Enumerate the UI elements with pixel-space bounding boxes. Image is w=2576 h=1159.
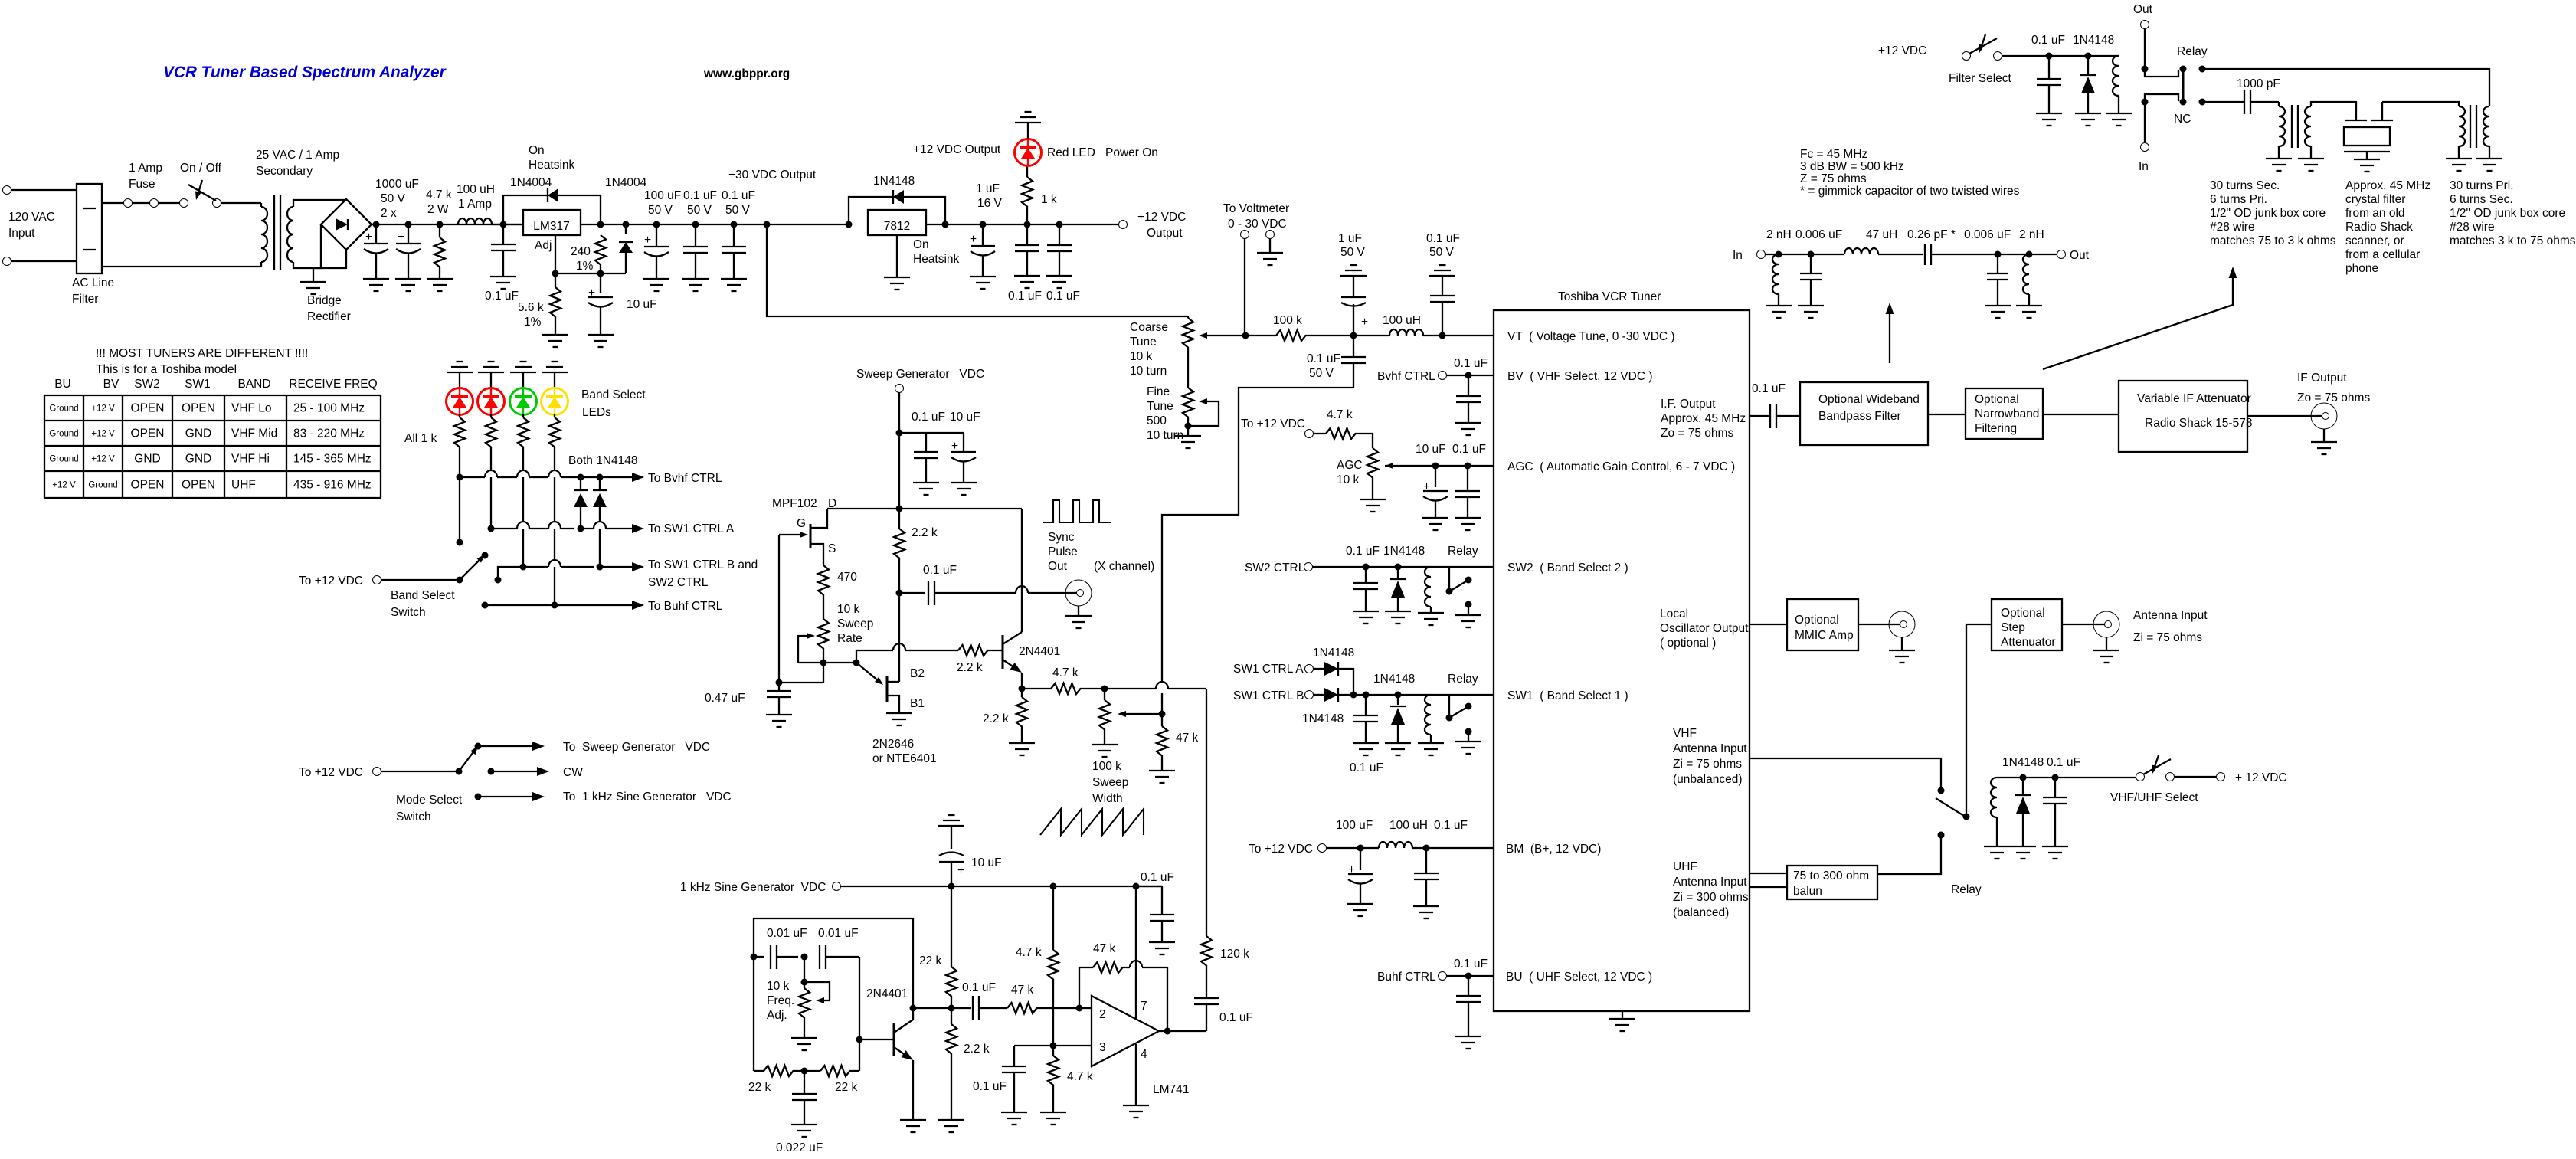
svg-text:50 V: 50 V	[1309, 367, 1334, 380]
svg-text:VHF Lo: VHF Lo	[231, 402, 272, 415]
svg-text:100 uH: 100 uH	[457, 183, 495, 196]
svg-text:Width: Width	[1092, 792, 1123, 805]
svg-text:UHF: UHF	[1673, 860, 1697, 873]
svg-text:0.01 uF: 0.01 uF	[767, 927, 807, 940]
svg-text:from a cellular: from a cellular	[2345, 248, 2420, 261]
svg-text:Buhf CTRL: Buhf CTRL	[1377, 971, 1436, 984]
svg-text:25 VAC / 1 Amp: 25 VAC / 1 Amp	[256, 149, 339, 162]
svg-text:NC: NC	[2174, 113, 2191, 126]
svg-text:VT ( Voltage Tune, 0 -30 VDC: VT ( Voltage Tune, 0 -30 VDC )	[1507, 330, 1675, 343]
svg-text:240: 240	[571, 245, 591, 258]
svg-text:Filter: Filter	[72, 293, 98, 306]
svg-text:4.7 k: 4.7 k	[1067, 1070, 1093, 1083]
svg-text:Rate: Rate	[837, 632, 862, 645]
svg-text:100 k: 100 k	[1092, 760, 1121, 773]
svg-text:470: 470	[837, 571, 857, 584]
svg-text:UHF: UHF	[231, 479, 256, 492]
svg-text:0.1 uF: 0.1 uF	[2047, 756, 2080, 769]
svg-text:Rectifier: Rectifier	[307, 310, 351, 323]
svg-text:Ground: Ground	[49, 455, 78, 464]
svg-text:1 uF: 1 uF	[1338, 232, 1362, 245]
svg-text:Radio Shack: Radio Shack	[2345, 221, 2413, 234]
svg-text:G: G	[797, 517, 806, 530]
svg-text:Bvhf CTRL: Bvhf CTRL	[1377, 370, 1435, 383]
svg-text:2.2 k: 2.2 k	[983, 712, 1009, 725]
svg-text:2.2 k: 2.2 k	[957, 661, 983, 674]
svg-text:Sync: Sync	[1048, 531, 1075, 544]
svg-text:BV: BV	[103, 378, 119, 391]
svg-text:To Bvhf CTRL: To Bvhf CTRL	[648, 472, 722, 485]
svg-text:0.1 uF: 0.1 uF	[1141, 871, 1174, 884]
svg-text:2N2646: 2N2646	[872, 738, 914, 751]
svg-text:0.1 uF: 0.1 uF	[1752, 382, 1786, 395]
svg-text:phone: phone	[2345, 262, 2378, 275]
svg-text:Freq.: Freq.	[767, 994, 794, 1007]
svg-text:#28 wire: #28 wire	[2210, 221, 2255, 234]
svg-text:GND: GND	[185, 427, 211, 440]
svg-text:50 V: 50 V	[687, 204, 712, 217]
svg-text:Switch: Switch	[396, 810, 431, 823]
svg-text:or NTE6401: or NTE6401	[872, 752, 937, 765]
svg-text:Relay: Relay	[1448, 673, 1478, 686]
svg-text:BM (B+, 12 VDC): BM (B+, 12 VDC)	[1506, 843, 1601, 856]
svg-text:10 k: 10 k	[1337, 473, 1360, 486]
svg-text:OPEN: OPEN	[182, 479, 215, 492]
svg-text:Zi = 75 ohms: Zi = 75 ohms	[2133, 631, 2202, 644]
svg-text:from an old: from an old	[2345, 207, 2405, 220]
svg-text:BU: BU	[54, 378, 71, 391]
svg-text:LM317: LM317	[533, 220, 569, 233]
svg-text:Radio Shack 15-578: Radio Shack 15-578	[2145, 417, 2252, 430]
svg-text:balun: balun	[1793, 885, 1822, 898]
svg-text:Zi = 75 ohms: Zi = 75 ohms	[1673, 758, 1742, 771]
svg-text:Attenuator: Attenuator	[2001, 636, 2056, 649]
svg-text:In: In	[1733, 249, 1743, 262]
svg-text:22 k: 22 k	[748, 1081, 771, 1094]
svg-text:Zo = 75 ohms: Zo = 75 ohms	[2297, 391, 2370, 404]
svg-text:SW1 ( Band Select 1 ): SW1 ( Band Select 1 )	[1507, 689, 1628, 702]
svg-text:To 1 kHz Sine Generator VDC: To 1 kHz Sine Generator VDC	[563, 791, 732, 804]
svg-text:MMIC Amp: MMIC Amp	[1795, 629, 1854, 642]
svg-text:0.1 uF: 0.1 uF	[962, 981, 996, 994]
svg-text:25 - 100 MHz: 25 - 100 MHz	[293, 402, 365, 415]
svg-text:BU ( UHF Select, 12 VDC ): BU ( UHF Select, 12 VDC )	[1506, 971, 1652, 984]
svg-text:500: 500	[1147, 414, 1167, 427]
svg-text:0 - 30 VDC: 0 - 30 VDC	[1228, 218, 1287, 231]
svg-text:10 turn: 10 turn	[1147, 429, 1183, 442]
svg-text:50 V: 50 V	[725, 204, 751, 217]
svg-text:This is for a Toshiba model: This is for a Toshiba model	[96, 363, 237, 376]
svg-text:GND: GND	[134, 453, 160, 466]
svg-text:120 VAC: 120 VAC	[8, 211, 55, 224]
svg-text:To Voltmeter: To Voltmeter	[1223, 202, 1289, 215]
svg-text:!!! MOST TUNERS ARE DIFFERENT: !!! MOST TUNERS ARE DIFFERENT !!!!	[96, 347, 308, 360]
svg-text:Optional: Optional	[1795, 614, 1839, 627]
svg-text:Optional Wideband: Optional Wideband	[1818, 393, 1920, 406]
svg-text:10 uF: 10 uF	[627, 298, 657, 311]
svg-text:+12 V: +12 V	[91, 404, 115, 414]
svg-text:1N4148: 1N4148	[1302, 712, 1344, 725]
svg-text:0.1 uF: 0.1 uF	[2031, 34, 2065, 47]
svg-text:Heatsink: Heatsink	[913, 253, 960, 266]
svg-text:+12 VDC: +12 VDC	[1137, 211, 1186, 224]
svg-text:10 k: 10 k	[1130, 350, 1153, 363]
svg-text:Oscillator Output: Oscillator Output	[1660, 622, 1749, 635]
svg-text:www.gbppr.org: www.gbppr.org	[703, 67, 790, 80]
svg-text:AC Line: AC Line	[72, 277, 114, 290]
svg-text:VHF/UHF Select: VHF/UHF Select	[2110, 791, 2198, 804]
svg-text:S: S	[828, 542, 836, 555]
svg-text:Approx. 45 MHz: Approx. 45 MHz	[1661, 412, 1746, 425]
svg-text:0.1 uF: 0.1 uF	[1307, 352, 1340, 365]
svg-text:Sweep: Sweep	[837, 617, 873, 630]
svg-text:+: +	[957, 864, 964, 877]
svg-text:Band Select: Band Select	[391, 589, 455, 602]
svg-text:0.26 pF *: 0.26 pF *	[1907, 228, 1956, 241]
svg-text:1N4148: 1N4148	[1373, 673, 1415, 686]
svg-text:+: +	[588, 286, 595, 300]
svg-text:Toshiba VCR Tuner: Toshiba VCR Tuner	[1558, 290, 1661, 303]
svg-text:Out: Out	[2070, 249, 2090, 262]
svg-text:10 uF: 10 uF	[950, 411, 980, 424]
svg-text:VHF: VHF	[1673, 727, 1697, 740]
svg-text:VHF Hi: VHF Hi	[231, 453, 270, 466]
svg-text:4.7 k: 4.7 k	[1327, 408, 1353, 421]
svg-text:Optional: Optional	[2001, 607, 2045, 620]
svg-text:On: On	[913, 238, 929, 251]
svg-text:0.1 uF: 0.1 uF	[1452, 443, 1486, 456]
svg-text:SW2: SW2	[134, 378, 160, 391]
svg-text:B1: B1	[910, 697, 925, 710]
svg-text:1 k: 1 k	[1041, 193, 1057, 206]
svg-text:1%: 1%	[576, 260, 594, 273]
svg-text:Pulse: Pulse	[1048, 545, 1078, 558]
svg-text:0.1 uF: 0.1 uF	[1346, 545, 1380, 558]
svg-text:10 uF: 10 uF	[971, 856, 1002, 869]
svg-text:+ 12 VDC: + 12 VDC	[2235, 771, 2287, 784]
svg-text:120 k: 120 k	[1220, 948, 1249, 961]
svg-text:Power On: Power On	[1105, 146, 1158, 159]
svg-text:1/2" OD junk box core: 1/2" OD junk box core	[2210, 207, 2326, 220]
svg-text:Bridge: Bridge	[307, 294, 342, 307]
svg-text:0.1 uF: 0.1 uF	[1046, 290, 1080, 303]
svg-text:47 k: 47 k	[1093, 942, 1116, 955]
svg-text:Coarse: Coarse	[1130, 321, 1168, 334]
svg-text:AGC ( Automatic Gain Control,: AGC ( Automatic Gain Control, 6 - 7 VDC …	[1507, 460, 1735, 473]
svg-text:CW: CW	[563, 766, 583, 779]
svg-text:OPEN: OPEN	[131, 479, 165, 492]
svg-text:Sweep: Sweep	[1092, 776, 1128, 789]
svg-text:4.7 k: 4.7 k	[1052, 666, 1079, 679]
svg-text:+12 V: +12 V	[91, 430, 115, 439]
svg-text:SW2 CTRL: SW2 CTRL	[1245, 561, 1305, 575]
svg-text:(unbalanced): (unbalanced)	[1673, 773, 1742, 786]
svg-text:Relay: Relay	[1448, 545, 1478, 558]
svg-text:100 k: 100 k	[1273, 314, 1302, 327]
svg-text:Filter Select: Filter Select	[1949, 72, 2012, 85]
svg-text:1N4004: 1N4004	[605, 176, 647, 189]
svg-text:GND: GND	[185, 453, 211, 466]
svg-text:LM741: LM741	[1153, 1083, 1189, 1096]
svg-text:OPEN: OPEN	[131, 402, 165, 415]
svg-text:145 - 365 MHz: 145 - 365 MHz	[293, 453, 372, 466]
svg-text:Adj: Adj	[535, 239, 552, 252]
svg-text:0.1 uF: 0.1 uF	[683, 189, 717, 202]
svg-text:0.1 uF: 0.1 uF	[1350, 761, 1383, 774]
svg-text:Fine: Fine	[1147, 385, 1170, 398]
svg-text:SW2 ( Band Select 2 ): SW2 ( Band Select 2 )	[1507, 561, 1628, 575]
svg-text:SW1 CTRL B: SW1 CTRL B	[1233, 689, 1304, 702]
svg-text:Tune: Tune	[1130, 336, 1157, 349]
svg-text:75 to 300 ohm: 75 to 300 ohm	[1793, 869, 1869, 882]
svg-text:5.6 k: 5.6 k	[518, 301, 544, 314]
svg-text:To +12 VDC: To +12 VDC	[1249, 843, 1313, 856]
svg-text:Local: Local	[1660, 607, 1688, 620]
svg-text:1N4148: 1N4148	[1383, 545, 1425, 558]
svg-text:22 k: 22 k	[919, 954, 942, 967]
svg-text:+: +	[951, 440, 958, 453]
svg-text:Approx. 45 MHz: Approx. 45 MHz	[2345, 179, 2430, 192]
svg-text:+12 VDC: +12 VDC	[1878, 44, 1926, 57]
svg-text:2N4401: 2N4401	[1019, 645, 1060, 658]
svg-text:SW1: SW1	[185, 378, 211, 391]
svg-text:6 turns Pri.: 6 turns Pri.	[2210, 193, 2267, 206]
svg-text:0.006 uF: 0.006 uF	[1964, 228, 2011, 241]
svg-text:(balanced): (balanced)	[1673, 906, 1729, 919]
svg-text:* = gimmick capacitor of two t: * = gimmick capacitor of two twisted wir…	[1800, 185, 2020, 198]
svg-text:1N4148: 1N4148	[2002, 756, 2044, 769]
svg-text:Ground: Ground	[88, 481, 117, 490]
svg-text:50 V: 50 V	[648, 204, 673, 217]
svg-text:0.022 uF: 0.022 uF	[776, 1141, 823, 1154]
svg-text:0.1 uF: 0.1 uF	[912, 411, 945, 424]
svg-text:47 uH: 47 uH	[1866, 228, 1897, 241]
svg-text:To Buhf CTRL: To Buhf CTRL	[648, 600, 723, 613]
svg-text:4.7 k: 4.7 k	[426, 188, 452, 201]
svg-text:0.47 uF: 0.47 uF	[705, 692, 745, 705]
svg-text:LEDs: LEDs	[582, 406, 611, 419]
svg-text:BV ( VHF Select, 12 VDC ): BV ( VHF Select, 12 VDC )	[1507, 370, 1653, 383]
svg-text:22 k: 22 k	[835, 1081, 858, 1094]
svg-text:16 V: 16 V	[977, 197, 1003, 210]
svg-text:2 nH: 2 nH	[2019, 228, 2044, 241]
svg-text:50 V: 50 V	[1429, 246, 1455, 259]
svg-text:50 V: 50 V	[381, 192, 406, 205]
svg-text:+: +	[398, 231, 404, 244]
svg-text:OPEN: OPEN	[131, 427, 165, 440]
svg-text:0.1 uF: 0.1 uF	[973, 1080, 1007, 1093]
svg-text:1 kHz Sine Generator VDC: 1 kHz Sine Generator VDC	[680, 881, 826, 894]
svg-text:100 uF: 100 uF	[1336, 819, 1373, 832]
svg-text:4.7 k: 4.7 k	[1016, 946, 1042, 959]
svg-text:Ground: Ground	[49, 430, 78, 439]
svg-text:10 k: 10 k	[767, 980, 790, 993]
svg-text:Bandpass Filter: Bandpass Filter	[1818, 410, 1901, 423]
svg-text:VHF Mid: VHF Mid	[231, 427, 277, 440]
svg-text:Relay: Relay	[2177, 45, 2208, 58]
svg-text:30 turns Pri.: 30 turns Pri.	[2450, 179, 2514, 192]
svg-text:0.1 uF: 0.1 uF	[722, 189, 755, 202]
svg-text:On: On	[529, 144, 545, 157]
svg-text:0.1 uF: 0.1 uF	[1454, 958, 1488, 971]
svg-text:Step: Step	[2001, 621, 2025, 634]
svg-text:+: +	[1423, 480, 1430, 493]
svg-text:0.006 uF: 0.006 uF	[1795, 228, 1842, 241]
svg-text:+: +	[1348, 863, 1355, 876]
svg-text:Fuse: Fuse	[129, 178, 155, 191]
svg-text:On / Off: On / Off	[180, 162, 222, 175]
svg-text:I.F. Output: I.F. Output	[1661, 398, 1716, 411]
svg-text:1N4148: 1N4148	[1313, 647, 1354, 660]
svg-text:#28 wire: #28 wire	[2450, 221, 2495, 234]
svg-text:50 V: 50 V	[1340, 246, 1366, 259]
svg-text:Zo = 75 ohms: Zo = 75 ohms	[1661, 427, 1733, 440]
svg-text:Fc = 45 MHz: Fc = 45 MHz	[1800, 148, 1867, 161]
svg-text:Antenna Input: Antenna Input	[1673, 742, 1747, 755]
svg-text:matches 75 to 3 k ohms: matches 75 to 3 k ohms	[2210, 234, 2336, 247]
svg-text:7: 7	[1141, 1000, 1147, 1013]
svg-text:2.2 k: 2.2 k	[912, 526, 938, 539]
svg-text:100 uH: 100 uH	[1383, 314, 1421, 327]
svg-text:(X channel): (X channel)	[1094, 560, 1154, 573]
svg-text:Z = 75 ohms: Z = 75 ohms	[1800, 172, 1867, 185]
svg-text:2 nH: 2 nH	[1766, 228, 1792, 241]
svg-text:7812: 7812	[884, 220, 910, 233]
svg-text:Antenna Input: Antenna Input	[1673, 876, 1747, 889]
svg-text:1N4148: 1N4148	[873, 175, 915, 188]
svg-text:Zi = 300 ohms: Zi = 300 ohms	[1673, 891, 1749, 904]
svg-text:Sweep Generator VDC: Sweep Generator VDC	[856, 368, 984, 381]
svg-text:SW2 CTRL: SW2 CTRL	[648, 576, 709, 589]
svg-text:1%: 1%	[524, 316, 542, 329]
svg-text:1 uF: 1 uF	[976, 182, 1000, 195]
svg-text:Out: Out	[2133, 3, 2153, 16]
svg-text:47 k: 47 k	[1011, 984, 1034, 997]
svg-text:100 uH: 100 uH	[1389, 819, 1428, 832]
svg-text:1000 pF: 1000 pF	[2237, 77, 2280, 90]
svg-text:83 - 220 MHz: 83 - 220 MHz	[293, 427, 365, 440]
svg-text:+12 V: +12 V	[91, 455, 115, 464]
svg-text:3 dB BW = 500 kHz: 3 dB BW = 500 kHz	[1800, 160, 1904, 173]
svg-text:Output: Output	[1147, 227, 1183, 240]
svg-text:3: 3	[1099, 1041, 1106, 1054]
svg-text:+: +	[970, 233, 977, 246]
svg-text:AGC: AGC	[1337, 459, 1363, 472]
svg-text:Out: Out	[1048, 560, 1068, 573]
svg-text:+: +	[365, 231, 372, 244]
svg-text:Relay: Relay	[1951, 883, 1982, 896]
svg-text:( optional ): ( optional )	[1660, 637, 1716, 650]
svg-text:IF Output: IF Output	[2297, 372, 2347, 385]
svg-text:2.2 k: 2.2 k	[964, 1043, 990, 1056]
svg-text:Ground: Ground	[49, 404, 78, 414]
svg-text:scanner, or: scanner, or	[2345, 234, 2404, 247]
svg-text:B2: B2	[910, 667, 925, 680]
svg-text:Mode Select: Mode Select	[396, 794, 463, 807]
svg-text:crystal filter: crystal filter	[2345, 193, 2405, 206]
svg-text:Tune: Tune	[1147, 400, 1173, 413]
svg-text:1N4004: 1N4004	[510, 176, 552, 189]
svg-text:2: 2	[1099, 1008, 1106, 1021]
svg-text:Input: Input	[8, 227, 35, 240]
svg-text:1 Amp: 1 Amp	[129, 162, 162, 175]
svg-text:Both 1N4148: Both 1N4148	[568, 454, 638, 467]
svg-text:30 turns Sec.: 30 turns Sec.	[2210, 179, 2280, 192]
svg-text:0.1 uF: 0.1 uF	[923, 564, 957, 577]
svg-text:Adj.: Adj.	[767, 1009, 787, 1022]
svg-text:Optional: Optional	[1975, 393, 2019, 406]
svg-text:D: D	[828, 497, 836, 510]
svg-text:0.1 uF: 0.1 uF	[485, 290, 519, 303]
svg-text:To SW1 CTRL B and: To SW1 CTRL B and	[648, 558, 758, 571]
svg-text:SW1 CTRL A: SW1 CTRL A	[1233, 663, 1304, 676]
svg-text:OPEN: OPEN	[182, 402, 215, 415]
svg-text:In: In	[2139, 160, 2149, 173]
svg-text:Red LED: Red LED	[1047, 146, 1095, 159]
svg-text:Filtering: Filtering	[1975, 422, 2017, 435]
svg-text:4: 4	[1141, 1048, 1147, 1061]
svg-text:47 k: 47 k	[1176, 732, 1199, 745]
svg-text:+12 V: +12 V	[52, 481, 76, 490]
svg-text:0.1 uF: 0.1 uF	[1454, 357, 1488, 370]
svg-text:6 turns Sec.: 6 turns Sec.	[2450, 193, 2513, 206]
svg-text:BAND: BAND	[237, 378, 270, 391]
svg-text:+: +	[1361, 316, 1368, 329]
svg-text:1/2" OD junk box core: 1/2" OD junk box core	[2450, 207, 2565, 220]
svg-text:1000 uF: 1000 uF	[375, 178, 419, 191]
svg-text:0.1 uF: 0.1 uF	[1008, 290, 1042, 303]
svg-text:0.1 uF: 0.1 uF	[1426, 232, 1460, 245]
svg-text:MPF102: MPF102	[772, 497, 817, 510]
svg-text:0.1 uF: 0.1 uF	[1219, 1011, 1253, 1024]
svg-text:All 1 k: All 1 k	[404, 432, 437, 445]
svg-text:Switch: Switch	[391, 606, 426, 619]
svg-text:To +12 VDC: To +12 VDC	[1241, 417, 1305, 431]
svg-text:2N4401: 2N4401	[866, 987, 908, 1000]
svg-text:+30 VDC Output: +30 VDC Output	[728, 169, 817, 182]
svg-text:Antenna Input: Antenna Input	[2133, 609, 2208, 622]
svg-text:Variable IF Attenuator: Variable IF Attenuator	[2137, 392, 2251, 405]
svg-text:To +12 VDC: To +12 VDC	[299, 766, 363, 779]
svg-text:Heatsink: Heatsink	[529, 159, 575, 172]
svg-text:matches 3 k to 75 ohms: matches 3 k to 75 ohms	[2450, 234, 2576, 247]
svg-text:+: +	[644, 234, 651, 247]
svg-text:To +12 VDC: To +12 VDC	[299, 575, 363, 588]
svg-text:1N4148: 1N4148	[2073, 34, 2114, 47]
svg-text:0.1 uF: 0.1 uF	[1434, 819, 1468, 832]
svg-text:10 uF: 10 uF	[1416, 443, 1446, 456]
svg-text:0.01 uF: 0.01 uF	[818, 927, 859, 940]
svg-text:2 W: 2 W	[427, 203, 449, 216]
svg-text:RECEIVE FREQ: RECEIVE FREQ	[289, 378, 377, 391]
svg-text:10 k: 10 k	[837, 603, 860, 616]
svg-text:To SW1 CTRL A: To SW1 CTRL A	[648, 522, 735, 535]
svg-text:10 turn: 10 turn	[1130, 365, 1167, 378]
svg-text:100 uF: 100 uF	[644, 189, 681, 202]
svg-text:1 Amp: 1 Amp	[458, 198, 492, 211]
svg-text:To Sweep Generator VDC: To Sweep Generator VDC	[563, 741, 710, 754]
svg-text:Band Select: Band Select	[581, 388, 646, 401]
svg-text:+12 VDC Output: +12 VDC Output	[913, 143, 1001, 156]
svg-text:VCR Tuner Based Spectrum Analy: VCR Tuner Based Spectrum Analyzer	[163, 64, 447, 81]
svg-text:435 - 916 MHz: 435 - 916 MHz	[293, 479, 372, 492]
svg-text:Narrowband: Narrowband	[1975, 408, 2039, 421]
svg-text:2 x: 2 x	[381, 207, 397, 220]
svg-text:Secondary: Secondary	[256, 165, 313, 178]
